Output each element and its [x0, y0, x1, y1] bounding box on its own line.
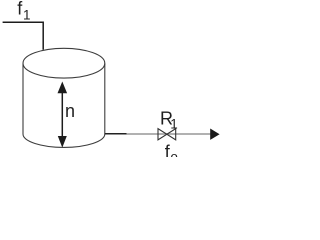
- wire outlet gray segment: [127, 133, 211, 135]
- label R1: [160, 108, 178, 131]
- outflow arrowhead: [210, 129, 219, 140]
- svg-text:1: 1: [170, 117, 178, 132]
- tank top ellipse: [23, 48, 105, 78]
- svg-text:1: 1: [23, 7, 31, 22]
- svg-text:o: o: [170, 150, 178, 157]
- wire inlet f1: [3, 22, 44, 50]
- valve R1 bowtie: [158, 129, 176, 140]
- level arrow shaft: [61, 90, 63, 138]
- level arrow head top: [58, 82, 68, 94]
- tank wall right: [104, 64, 106, 135]
- svg-text:n: n: [65, 101, 75, 121]
- tank bottom arc: [23, 134, 105, 147]
- label fo (outflow): [165, 142, 178, 165]
- tank wall left: [22, 64, 24, 135]
- wire outlet black segment: [105, 133, 127, 135]
- level arrow head bottom: [58, 136, 67, 148]
- label f1 (inflow): [17, 0, 30, 22]
